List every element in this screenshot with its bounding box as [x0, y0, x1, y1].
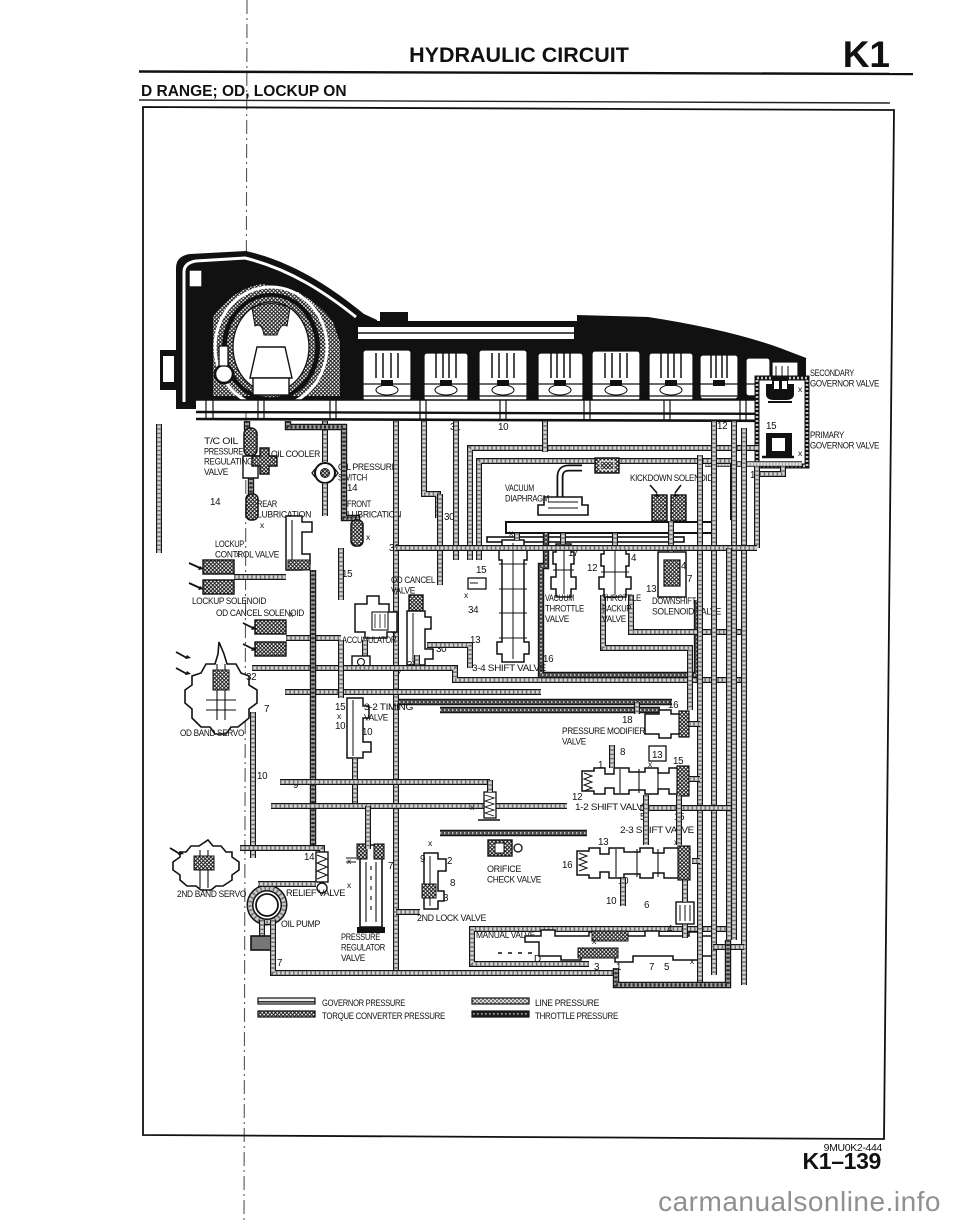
relief valve [316, 852, 328, 893]
label throttle backup valve label [602, 592, 641, 624]
fold line [244, 0, 247, 1222]
svg-text:LUBRICATION: LUBRICATION [347, 509, 401, 520]
secondary governor valve [766, 376, 794, 402]
clutch drums [363, 350, 770, 401]
wire vtv stem [560, 533, 566, 544]
legend torque converter pressure swatch [258, 1011, 315, 1017]
svg-text:PRIMARY: PRIMARY [810, 429, 845, 440]
svg-text:GOVERNOR PRESSURE: GOVERNOR PRESSURE [322, 997, 405, 1008]
svg-text:VALVE: VALVE [545, 613, 569, 624]
accumulator [355, 596, 397, 638]
svg-text:VALVE: VALVE [341, 952, 365, 963]
input shaft housing [354, 321, 578, 345]
svg-text:1-2 SHIFT VALVE: 1-2 SHIFT VALVE [575, 801, 649, 812]
svg-text:CHECK VALVE: CHECK VALVE [487, 874, 541, 885]
rear lubrication [246, 494, 258, 520]
wire loop inner [479, 461, 733, 560]
wire 12v stem [609, 745, 615, 768]
boxed 13 [649, 746, 666, 761]
label vacuum throttle valve label [545, 592, 584, 624]
label downshift solenoid valve label [652, 595, 721, 617]
wire front lube trunk [288, 421, 357, 546]
wire rv 714 [711, 421, 717, 975]
svg-text:K1: K1 [843, 34, 890, 75]
torque converter [215, 287, 327, 407]
wire bus 7a [285, 689, 541, 695]
svg-text:BACKUP: BACKUP [602, 603, 631, 614]
svg-text:14: 14 [304, 852, 315, 863]
svg-text:HYDRAULIC CIRCUIT: HYDRAULIC CIRCUIT [409, 43, 629, 67]
svg-text:OD CANCEL: OD CANCEL [391, 574, 435, 585]
od band servo arrows [176, 652, 187, 674]
wire 34 stem [514, 533, 520, 540]
wire tc reg feed [244, 421, 250, 430]
svg-text:3: 3 [443, 893, 449, 904]
wire left rail [156, 424, 162, 553]
wire 23v bottom link [620, 878, 626, 906]
svg-text:32: 32 [246, 672, 256, 683]
2nd band servo [173, 840, 239, 890]
svg-text:2: 2 [447, 856, 452, 867]
wire vtv dark U [541, 533, 697, 675]
wire acc bottom drop [362, 640, 368, 668]
svg-text:D: D [534, 954, 541, 965]
wire bus throttle 2 [440, 707, 660, 713]
wire left trunk down [250, 712, 256, 858]
3-2 timing valve [347, 698, 371, 758]
wire rv 757 [754, 466, 760, 548]
svg-text:3: 3 [594, 962, 600, 973]
svg-text:14: 14 [210, 497, 221, 508]
pan rail [196, 400, 806, 411]
case notch [189, 270, 202, 287]
svg-text:PRESSURE MODIFIER: PRESSURE MODIFIER [562, 725, 646, 736]
wire pm right link [689, 721, 700, 727]
svg-text:LOCKUP SOLENOID: LOCKUP SOLENOID [192, 595, 266, 606]
svg-text:RELIEF VALVE: RELIEF VALVE [286, 887, 345, 898]
wire gov bus [705, 461, 802, 467]
oil pump [250, 888, 284, 922]
svg-text:18: 18 [622, 715, 633, 726]
svg-text:3-2 TIMING: 3-2 TIMING [364, 701, 413, 712]
wire 32t drop [338, 640, 344, 698]
wire solenoid stem b [682, 924, 688, 938]
svg-text:VALVE: VALVE [391, 585, 415, 596]
wire tbv stem [612, 533, 618, 546]
wire net30 drop [424, 421, 438, 518]
svg-text:7: 7 [277, 958, 282, 969]
svg-text:16: 16 [562, 860, 573, 871]
svg-text:12: 12 [587, 563, 597, 574]
svg-text:PRESSURE: PRESSURE [341, 931, 380, 942]
wire rv 734 [731, 421, 737, 940]
left mounting bracket [160, 350, 177, 390]
kickdown solenoid [652, 495, 686, 521]
wire cooler drop [248, 478, 254, 494]
wire pm feed [634, 702, 640, 714]
wire prv feed [365, 806, 371, 849]
svg-text:10: 10 [498, 422, 509, 433]
wire relief spring stem [487, 780, 493, 792]
oil strainer [251, 936, 273, 950]
wire acc drop [338, 548, 344, 600]
label vacuum diaphragm label [505, 482, 549, 504]
wire servo-relief wire [240, 848, 322, 852]
svg-text:4: 4 [667, 924, 673, 935]
svg-text:13: 13 [652, 750, 663, 761]
header rule [139, 72, 913, 75]
svg-text:VALVE: VALVE [562, 736, 586, 747]
wire bus 806 [271, 803, 567, 809]
svg-text:4: 4 [631, 553, 637, 564]
svg-text:GOVERNOR VALVE: GOVERNOR VALVE [810, 440, 879, 451]
svg-text:13: 13 [646, 584, 657, 595]
label od cancel valve label [391, 574, 435, 596]
valve vacuum throttle valve [551, 544, 576, 597]
wire manual valve frame [472, 929, 728, 964]
svg-text:ORIFICE: ORIFICE [487, 863, 521, 874]
svg-text:2ND LOCK VALVE: 2ND LOCK VALVE [417, 912, 486, 923]
output flange [772, 362, 798, 396]
valve 1-2 shift valve [582, 766, 689, 796]
T/C oil pressure regulating valve [243, 428, 258, 478]
svg-text:VALVE: VALVE [364, 712, 388, 723]
wire h 548 [396, 545, 757, 551]
solenoid od cancel solenoid [255, 620, 286, 656]
legend governor pressure swatch [258, 998, 315, 1004]
svg-text:OD BAND SERVO: OD BAND SERVO [180, 727, 244, 738]
wire rv 700 [697, 455, 703, 985]
wire lockup sol wire [234, 574, 286, 580]
label front lubrication [347, 498, 401, 520]
wire pump inlet [258, 881, 316, 887]
3-4 valve left port bracket [468, 578, 486, 589]
label pressure modifier valve label [562, 725, 646, 747]
manual valve [498, 930, 713, 962]
svg-text:LUBRICATION: LUBRICATION [257, 509, 311, 520]
svg-text:VACUUM: VACUUM [505, 482, 534, 493]
wire loop outer [470, 448, 759, 560]
wire net31 drop2 [437, 494, 443, 585]
svg-text:4: 4 [681, 561, 687, 572]
wire net31 right drop [453, 421, 459, 560]
label t/c oil pressure regulating valve [204, 435, 253, 477]
front lubrication [351, 520, 363, 546]
svg-text:OIL COOLER: OIL COOLER [271, 448, 321, 459]
check valve on bus 32 [352, 656, 370, 669]
wire switch drop [322, 483, 328, 516]
svg-text:OIL PUMP: OIL PUMP [281, 918, 320, 929]
transmission cross-section silhouette [160, 251, 806, 421]
wire pump out [273, 920, 616, 973]
valve 3-4 shift valve [497, 540, 529, 662]
orifice check valve [488, 840, 512, 856]
label pressure regulator valve label [341, 931, 385, 963]
svg-text:7: 7 [396, 669, 401, 680]
wire bus 782 [280, 779, 490, 785]
svg-text:1: 1 [598, 760, 603, 771]
svg-text:5: 5 [664, 962, 670, 973]
valve 2-3 shift valve [577, 846, 690, 880]
svg-text:15: 15 [766, 421, 777, 432]
label oil pressure switch [338, 461, 397, 483]
svg-text:10: 10 [335, 721, 346, 732]
valve throttle backup valve [599, 546, 631, 597]
label secondary governor valve [810, 367, 879, 389]
svg-text:VALVE: VALVE [602, 613, 626, 624]
throttle relief spring [478, 792, 500, 820]
svg-text:7: 7 [264, 704, 269, 715]
wire mv right link [713, 944, 744, 950]
svg-text:9: 9 [420, 854, 425, 865]
svg-text:THROTTLE PRESSURE: THROTTLE PRESSURE [535, 1010, 618, 1021]
wire lock valve link [396, 909, 420, 915]
svg-text:14: 14 [347, 483, 358, 494]
svg-text:ACCUMULATOR: ACCUMULATOR [342, 634, 396, 645]
subtitle underline [139, 100, 890, 103]
svg-text:LOCKUP: LOCKUP [215, 538, 244, 549]
svg-text:K1–139: K1–139 [803, 1148, 881, 1174]
label orifice check valve label [487, 863, 541, 885]
wire bus throttle 1 [399, 699, 672, 705]
wire gov 1 wire [757, 466, 783, 474]
svg-text:12: 12 [717, 421, 727, 432]
label primary governor valve [810, 429, 879, 451]
svg-text:10: 10 [362, 727, 373, 738]
svg-text:8: 8 [450, 878, 456, 889]
wire net31 drop [393, 421, 399, 970]
label rear lubrication [257, 498, 311, 520]
svg-text:7: 7 [687, 574, 692, 585]
svg-text:VACUUM: VACUUM [545, 592, 574, 603]
wire 15 link [676, 795, 682, 845]
wire rv 729 [726, 548, 732, 940]
pressure modifier valve [645, 710, 689, 738]
svg-text:FRONT: FRONT [347, 498, 371, 509]
wire 12v under link [640, 805, 731, 811]
wire 23v right link [692, 858, 700, 864]
governor valve assembly box [757, 378, 807, 466]
gear train case [354, 316, 806, 409]
wire rv 744 [741, 428, 747, 985]
lockup solenoid arrows [189, 563, 200, 588]
svg-text:D RANGE; OD, LOCKUP ON: D RANGE; OD, LOCKUP ON [141, 83, 347, 100]
svg-text:THROTTLE: THROTTLE [602, 592, 641, 603]
wire 12v right link [689, 776, 700, 782]
svg-text:VALVE: VALVE [204, 466, 228, 477]
wire dsv stem [668, 521, 674, 552]
converter housing hatch [213, 284, 340, 396]
svg-text:15: 15 [476, 565, 487, 576]
label 3-2 timing valve label [364, 701, 413, 723]
wire od cancel sol wire [286, 635, 341, 641]
wire wire 30 odc [427, 645, 470, 668]
wire odc valve drop [414, 655, 420, 668]
svg-text:THROTTLE: THROTTLE [545, 603, 584, 614]
wire net1 drop [542, 421, 548, 452]
legend line pressure swatch [472, 998, 529, 1004]
front pump boss [215, 365, 233, 383]
svg-text:15: 15 [673, 756, 684, 767]
svg-text:REGULATOR: REGULATOR [341, 942, 385, 953]
wire main dark trunk [310, 570, 316, 848]
primary governor valve [762, 433, 794, 457]
wire 5 link [643, 795, 649, 845]
bell housing [176, 251, 377, 409]
pressure regulator valve [357, 844, 385, 933]
converter relief solenoid [676, 902, 694, 924]
svg-text:GOVERNOR VALVE: GOVERNOR VALVE [810, 378, 879, 389]
OD band servo [185, 642, 257, 734]
wire bottom bus [616, 940, 728, 985]
od cancel valve [407, 595, 433, 665]
main frame box [143, 107, 894, 1139]
check ball [514, 844, 522, 852]
oil pressure switch [312, 463, 338, 483]
svg-text:7: 7 [649, 962, 654, 973]
svg-text:12: 12 [572, 792, 582, 803]
vacuum diaphragm [538, 468, 588, 515]
lockup control valve [286, 516, 312, 570]
oil cooler [252, 448, 277, 474]
wire bus 32 [252, 668, 744, 680]
svg-text:DIAPHRAGM: DIAPHRAGM [505, 493, 549, 504]
gasket lines [196, 412, 806, 414]
legend throttle pressure swatch [472, 1011, 529, 1017]
svg-text:15: 15 [342, 569, 353, 580]
2nd lock valve [422, 853, 446, 909]
inline filter [595, 458, 619, 473]
svg-text:TORQUE CONVERTER PRESSURE: TORQUE CONVERTER PRESSURE [322, 1010, 445, 1021]
svg-text:DOWNSHIFT: DOWNSHIFT [652, 595, 697, 606]
wire tbv loop b [631, 595, 744, 632]
solenoid lockup solenoid [203, 560, 234, 594]
svg-text:16: 16 [543, 654, 554, 665]
throttle rail [487, 522, 712, 542]
svg-text:2ND BAND SERVO: 2ND BAND SERVO [177, 888, 246, 899]
wire tbv loop a [603, 595, 690, 710]
svg-text:13: 13 [598, 837, 609, 848]
svg-text:6: 6 [644, 900, 650, 911]
svg-text:2-3 SHIFT VALVE: 2-3 SHIFT VALVE [620, 824, 694, 835]
svg-text:10: 10 [606, 896, 617, 907]
svg-text:3-4 SHIFT VALVE: 3-4 SHIFT VALVE [472, 662, 546, 673]
wire bus throttle low [440, 830, 587, 836]
svg-text:34: 34 [468, 605, 479, 616]
wire pump strainer pipe [259, 920, 265, 936]
wire solenoid stem [682, 880, 688, 902]
svg-text:SOLENOID VALVE: SOLENOID VALVE [652, 606, 721, 617]
wire oil pressure switch feed [322, 421, 328, 462]
label lockup control valve [215, 538, 279, 560]
svg-text:SECONDARY: SECONDARY [810, 367, 855, 378]
svg-text:10: 10 [257, 771, 268, 782]
svg-text:CONTROL VALVE: CONTROL VALVE [215, 549, 279, 560]
svg-text:carmanualsonline.info: carmanualsonline.info [658, 1186, 941, 1217]
svg-text:7: 7 [388, 861, 393, 872]
svg-text:REAR: REAR [257, 498, 277, 509]
downshift solenoid valve [658, 552, 686, 597]
wire 32t drop2 [352, 758, 358, 806]
svg-text:LINE PRESSURE: LINE PRESSURE [535, 997, 599, 1008]
svg-text:8: 8 [620, 747, 626, 758]
2nd band servo arrow [170, 848, 180, 854]
